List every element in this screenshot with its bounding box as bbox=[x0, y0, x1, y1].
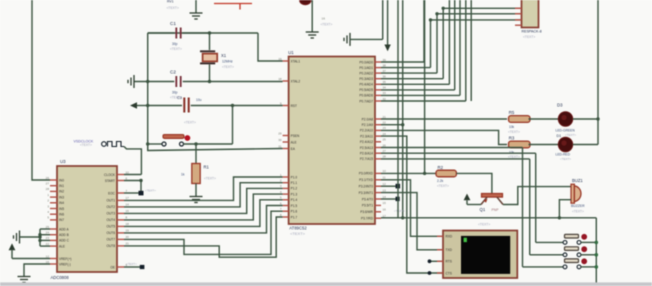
svg-text:P3.3/INT1: P3.3/INT1 bbox=[359, 191, 374, 195]
svg-text:IN5: IN5 bbox=[59, 207, 64, 211]
svg-text:<TEXT>: <TEXT> bbox=[204, 177, 216, 181]
svg-text:P2.5/A13: P2.5/A13 bbox=[360, 146, 373, 150]
svg-text:ALE: ALE bbox=[59, 244, 65, 248]
svg-text:21: 21 bbox=[383, 115, 387, 119]
U3 pin 18 OUT5 bbox=[117, 225, 124, 227]
svg-text:P3.0/RXD: P3.0/RXD bbox=[359, 172, 374, 176]
svg-text:P0.3/AD3: P0.3/AD3 bbox=[359, 77, 373, 81]
svg-text:OUT1: OUT1 bbox=[106, 199, 115, 203]
subtle tint overlays bbox=[0, 282, 652, 286]
svg-text:ADD C: ADD C bbox=[59, 239, 70, 243]
U1 pin 25 P2.4/A12 bbox=[375, 141, 381, 143]
svg-text:P3.5/T1: P3.5/T1 bbox=[362, 204, 373, 208]
wire DCLOCK to U3 CLOCK bbox=[124, 147, 141, 175]
svg-text:P3.7/RD: P3.7/RD bbox=[361, 217, 374, 221]
U1 pin 7 P1.6 bbox=[283, 210, 289, 212]
svg-text:28: 28 bbox=[46, 187, 50, 191]
U1 pin 8 P1.7 bbox=[283, 216, 289, 218]
svg-text:P3.6/WR: P3.6/WR bbox=[360, 210, 373, 214]
capacitor C3 (electrolytic) bbox=[148, 105, 182, 107]
wire P0.0 to resistor pack bbox=[381, 61, 424, 63]
svg-text:BUZ1: BUZ1 bbox=[572, 178, 583, 183]
wire P0.3 to resistor pack bbox=[381, 78, 443, 80]
wire crystal to XTAL1 net bbox=[209, 33, 211, 50]
svg-text:IN1: IN1 bbox=[59, 184, 64, 188]
U3 pin 10 CLOCK bbox=[117, 174, 124, 176]
svg-text:CTS: CTS bbox=[446, 271, 452, 275]
svg-text:PNP: PNP bbox=[492, 208, 500, 212]
svg-text:<TEXT>: <TEXT> bbox=[167, 6, 179, 10]
terminal CTS junction bbox=[428, 271, 432, 275]
svg-text:Q1: Q1 bbox=[480, 207, 486, 212]
svg-text:P3.2/INT0: P3.2/INT0 bbox=[359, 185, 374, 189]
terminal pin TXD bbox=[437, 249, 443, 251]
svg-text:R2: R2 bbox=[438, 165, 444, 170]
wire OUT2 to P1.1 bbox=[124, 183, 283, 207]
svg-text:VREF(+): VREF(+) bbox=[59, 257, 72, 261]
resistor R5 bbox=[509, 116, 531, 123]
svg-text:OUT8: OUT8 bbox=[106, 244, 115, 248]
svg-text:31: 31 bbox=[278, 144, 282, 148]
svg-text:R1: R1 bbox=[204, 165, 210, 170]
svg-text:VREF(-): VREF(-) bbox=[59, 262, 71, 266]
svg-text:C3: C3 bbox=[177, 96, 182, 100]
U3 pin 26 IN0 bbox=[50, 179, 57, 181]
wire R1 to ground bbox=[195, 184, 197, 197]
svg-text:IN4: IN4 bbox=[59, 201, 64, 205]
power arrow terminal up bbox=[464, 194, 471, 201]
wire riser RST to button row bbox=[232, 106, 234, 145]
svg-text:36: 36 bbox=[383, 75, 387, 79]
terminal screen bbox=[461, 236, 510, 274]
wire P3.3 to terminal TXD bbox=[381, 193, 443, 250]
U1 pin 13 P3.3/INT1 bbox=[375, 192, 381, 194]
svg-text:P1.4: P1.4 bbox=[291, 198, 298, 202]
svg-text:32: 32 bbox=[383, 97, 387, 101]
svg-text:RV1: RV1 bbox=[167, 0, 174, 4]
button 3 red actuator bbox=[581, 258, 587, 264]
transistor Q1 (PNP) bbox=[482, 194, 503, 198]
wire button 1 to ground bus bbox=[581, 241, 596, 243]
wire VREF- to ground bbox=[24, 264, 50, 276]
svg-text:R5: R5 bbox=[509, 110, 515, 115]
U3 pin 21 OUT8 bbox=[117, 245, 124, 247]
U3 pin 17 OUT1 bbox=[117, 199, 124, 201]
button red actuator bbox=[185, 135, 191, 141]
wire crystal bottom bbox=[209, 65, 211, 82]
U1 pin 3 P1.2 bbox=[283, 187, 289, 189]
U1 pin 2 P1.1 bbox=[283, 182, 289, 184]
svg-text:P1.5: P1.5 bbox=[291, 204, 298, 208]
U1 pin 26 P2.5/A13 bbox=[375, 147, 381, 149]
resistor R1 bbox=[195, 144, 197, 164]
resistor pack RESPACK-8 bbox=[522, 0, 539, 28]
svg-text:RXD: RXD bbox=[446, 235, 453, 239]
svg-text:P2.6/A14: P2.6/A14 bbox=[360, 152, 373, 156]
svg-text:<TEXT>: <TEXT> bbox=[572, 210, 584, 214]
U1 pin 30 ALE bbox=[283, 141, 289, 143]
svg-text:23: 23 bbox=[383, 126, 387, 130]
svg-text:<TEXT>: <TEXT> bbox=[184, 121, 196, 125]
wire XTAL2 net bbox=[134, 81, 174, 83]
svg-text:PSEN: PSEN bbox=[291, 134, 300, 138]
U1 pin 9 RST bbox=[283, 105, 289, 107]
U1 pin 17 P3.7/RD bbox=[375, 217, 381, 219]
EOC terminal bbox=[124, 192, 139, 194]
svg-text:P2.1/A9: P2.1/A9 bbox=[362, 123, 374, 127]
svg-text:P1.2: P1.2 bbox=[291, 187, 298, 191]
U1 pin 18 XTAL2 bbox=[283, 80, 289, 82]
svg-text:BUZZER: BUZZER bbox=[571, 204, 585, 208]
svg-text:OUT3: OUT3 bbox=[106, 212, 115, 216]
svg-text:23: 23 bbox=[46, 236, 50, 240]
svg-text:30p: 30p bbox=[172, 91, 178, 95]
wire OUT4 to P1.3 bbox=[124, 194, 283, 220]
U1 pin 19 XTAL1 bbox=[283, 60, 289, 62]
svg-text:XTAL2: XTAL2 bbox=[291, 79, 301, 83]
wire buzzer bottom to button bus bbox=[559, 200, 571, 218]
svg-text:P3.1/TXD: P3.1/TXD bbox=[359, 178, 374, 182]
long vertical net joining P3.7 row bbox=[397, 0, 399, 218]
junction button / R1 bbox=[194, 142, 197, 145]
wire P0.7 to resistor pack bbox=[381, 100, 466, 102]
svg-text:19: 19 bbox=[126, 229, 130, 233]
svg-text:P0.1/AD1: P0.1/AD1 bbox=[359, 66, 373, 70]
ground symbol top middle bbox=[195, 0, 197, 13]
wire to top edge bbox=[382, 0, 384, 39]
U1 pin 29 PSEN bbox=[283, 135, 289, 137]
svg-text:IN2: IN2 bbox=[59, 190, 64, 194]
power arrow for VREF+ bbox=[9, 243, 16, 250]
svg-text:33: 33 bbox=[383, 91, 387, 95]
svg-text:IN6: IN6 bbox=[59, 213, 64, 217]
svg-text:OUT2: OUT2 bbox=[106, 205, 115, 209]
svg-text:ADD B: ADD B bbox=[59, 233, 69, 237]
svg-text:30: 30 bbox=[278, 138, 282, 142]
svg-text:P0.2/AD2: P0.2/AD2 bbox=[359, 71, 373, 75]
U1 pin 4 P1.3 bbox=[283, 193, 289, 195]
U3 pin 23 ADD C bbox=[50, 239, 57, 241]
U1 pin 14 P3.4/T0 bbox=[375, 198, 381, 200]
svg-text:16: 16 bbox=[383, 208, 387, 212]
U3 pin 20 OUT7 bbox=[117, 238, 124, 240]
svg-text:27: 27 bbox=[46, 182, 50, 186]
buzzer BUZ1 bbox=[571, 184, 574, 203]
svg-text:<TEXT>: <TEXT> bbox=[565, 133, 576, 137]
U1 pin 38 P0.1/AD1 bbox=[375, 67, 381, 69]
wire XTAL1 top net bbox=[148, 32, 258, 34]
svg-text:RESPACK-8: RESPACK-8 bbox=[522, 30, 542, 34]
wire P2.2 to R3 bbox=[381, 130, 507, 144]
svg-text:24: 24 bbox=[46, 231, 50, 235]
wire fragment to ground bbox=[311, 0, 313, 32]
U1 pin 15 P3.5/T1 bbox=[375, 204, 381, 206]
svg-text:2.2k: 2.2k bbox=[437, 179, 444, 183]
svg-text:OE: OE bbox=[110, 265, 115, 269]
svg-text:P3.4/T0: P3.4/T0 bbox=[362, 197, 373, 201]
wire P3.7 row to button bus bbox=[381, 217, 596, 219]
U1 pin 34 P0.5/AD5 bbox=[375, 89, 381, 91]
svg-text:P1.0: P1.0 bbox=[291, 175, 298, 179]
vertical ADD bus bbox=[39, 229, 41, 246]
svg-text:<TEXT>: <TEXT> bbox=[80, 143, 92, 147]
junction crystal top bbox=[208, 31, 211, 34]
respack pin 1 bbox=[515, 7, 522, 9]
U3 pin 15 OUT3 bbox=[117, 212, 124, 214]
wire button 3 to ground bus bbox=[581, 266, 596, 268]
svg-text:25: 25 bbox=[383, 138, 387, 142]
push button 2 bbox=[563, 253, 567, 257]
svg-text:ALE: ALE bbox=[291, 140, 297, 144]
svg-text:15: 15 bbox=[126, 209, 130, 213]
wire R5 to D3 bbox=[529, 118, 559, 120]
button 2 red actuator bbox=[581, 246, 587, 252]
U3 pin 14 OUT2 bbox=[117, 206, 124, 208]
reset button bbox=[148, 143, 162, 145]
svg-text:12: 12 bbox=[383, 182, 387, 186]
svg-text:38: 38 bbox=[383, 63, 387, 67]
svg-text:P0.0/AD0: P0.0/AD0 bbox=[359, 60, 373, 64]
U3 pin 4 IN6 bbox=[50, 213, 57, 215]
wire R2 to Q1 base bbox=[456, 173, 492, 193]
U3 pin 25 ADD A bbox=[50, 228, 57, 230]
wire P3.0 to R2 bbox=[381, 172, 436, 174]
svg-text:D3: D3 bbox=[557, 103, 563, 108]
svg-text:21: 21 bbox=[126, 242, 130, 246]
svg-text:P1.7: P1.7 bbox=[291, 215, 298, 219]
U1 pin 36 P0.3/AD3 bbox=[375, 78, 381, 80]
wire P0.4 to resistor pack bbox=[381, 83, 449, 85]
svg-text:16: 16 bbox=[46, 260, 50, 264]
terminal pin CTS bbox=[437, 272, 443, 274]
capacitor C1 bbox=[148, 32, 175, 34]
U1 pin 37 P0.2/AD2 bbox=[375, 72, 381, 74]
svg-text:25: 25 bbox=[46, 225, 50, 229]
U1 pin 6 P1.5 bbox=[283, 205, 289, 207]
U1 pin 21 P2.0/A8 bbox=[375, 118, 381, 120]
svg-text:RST: RST bbox=[291, 104, 297, 108]
U3 pin 19 OUT6 bbox=[117, 232, 124, 234]
svg-text:14: 14 bbox=[126, 203, 130, 207]
respack pin 3 bbox=[515, 19, 522, 21]
svg-text:<TEXT>: <TEXT> bbox=[508, 130, 520, 134]
svg-text:12: 12 bbox=[46, 254, 50, 258]
svg-text:22: 22 bbox=[383, 121, 387, 125]
svg-text:29: 29 bbox=[278, 131, 282, 135]
wire P2.1 row bbox=[381, 124, 403, 126]
terminal pin RTS bbox=[437, 260, 443, 262]
U1 pin 24 P2.3/A11 bbox=[375, 135, 381, 137]
svg-text:14: 14 bbox=[383, 195, 387, 199]
capacitor C2 bbox=[176, 76, 180, 87]
svg-text:<TEXT>: <TEXT> bbox=[321, 23, 333, 27]
svg-text:<TEXT>: <TEXT> bbox=[560, 157, 571, 161]
terminal RTS stub bbox=[430, 260, 444, 262]
wire R3 to D1 bbox=[529, 144, 559, 146]
svg-text:P1.3: P1.3 bbox=[291, 192, 298, 196]
terminal pin RXD bbox=[437, 235, 443, 237]
U3 pin 12 VREF(+) bbox=[50, 258, 57, 260]
U3 pin 16 VREF(-) bbox=[50, 263, 57, 265]
junction RST / button riser bbox=[231, 104, 234, 107]
push button 1 bbox=[563, 241, 567, 245]
OE terminal bbox=[124, 266, 140, 268]
junction C-net / vertical bbox=[146, 80, 149, 83]
wire P2.3 to terminal CTS bbox=[381, 136, 443, 273]
wire D1 to bus bbox=[573, 144, 598, 146]
terminal P3.4 net bbox=[381, 198, 396, 200]
wire OUT3 to P1.2 bbox=[124, 188, 283, 213]
U3 pin 2 IN4 bbox=[50, 202, 57, 204]
U1 pin 28 P2.7/A15 bbox=[375, 158, 381, 160]
svg-text:CLOCK: CLOCK bbox=[104, 173, 116, 177]
svg-text:U1: U1 bbox=[288, 50, 294, 55]
svg-text:XTAL1: XTAL1 bbox=[291, 59, 301, 63]
svg-text:<TEXT>: <TEXT> bbox=[290, 231, 306, 236]
svg-text:10: 10 bbox=[383, 169, 387, 173]
wire EA net bbox=[147, 144, 149, 151]
wire Q1 emitter to power arrow bbox=[467, 204, 481, 206]
ground for C2 (rotated) bbox=[128, 75, 134, 88]
svg-text:R3: R3 bbox=[509, 136, 515, 141]
virtual terminal body bbox=[443, 231, 517, 279]
U1 pin 22 P2.1/A9 bbox=[375, 124, 381, 126]
svg-text:LED-RED: LED-RED bbox=[556, 153, 571, 157]
terminal P3.2 net bbox=[381, 185, 396, 187]
svg-text:ADC0808: ADC0808 bbox=[51, 275, 70, 280]
ground at button bus bottom bbox=[590, 283, 603, 286]
U3 pin 27 IN1 bbox=[50, 185, 57, 187]
svg-text:C2: C2 bbox=[170, 70, 176, 75]
svg-text:U3: U3 bbox=[60, 159, 66, 164]
U1 pin 16 P3.6/WR bbox=[375, 211, 381, 213]
wire OUT5 to P1.4 bbox=[124, 200, 283, 227]
component fragment at top (dark red) bbox=[300, 0, 311, 5]
svg-text:18: 18 bbox=[126, 222, 130, 226]
svg-text:1k: 1k bbox=[181, 173, 185, 177]
svg-text:39: 39 bbox=[383, 58, 387, 62]
svg-text:RTS: RTS bbox=[446, 260, 452, 264]
wire P2.0 to R5 bbox=[381, 118, 507, 120]
long vertical net joining R2 input bbox=[424, 0, 426, 173]
svg-text:IN0: IN0 bbox=[59, 178, 64, 182]
U1 pin 23 P2.2/A10 bbox=[375, 129, 381, 131]
wire P0.5 to resistor pack bbox=[381, 89, 455, 91]
svg-text:26: 26 bbox=[383, 143, 387, 147]
svg-text:OUT7: OUT7 bbox=[106, 238, 115, 242]
svg-text:<TEXT>: <TEXT> bbox=[222, 65, 234, 69]
wire OUT6 to P1.5 bbox=[124, 206, 283, 233]
svg-text:20: 20 bbox=[126, 235, 130, 239]
wire P2.6 to button 1 bbox=[381, 152, 536, 154]
U3 pin 6 START bbox=[117, 180, 124, 182]
junction at LED bus bbox=[596, 117, 599, 120]
rotated ground near U1 top bbox=[344, 33, 350, 46]
svg-text:C1: C1 bbox=[170, 21, 176, 26]
wire P2.5 to button 3 bbox=[381, 147, 523, 149]
U3 pin 5 IN7 bbox=[50, 219, 57, 221]
svg-text:OUT6: OUT6 bbox=[106, 231, 115, 235]
U1 pin 39 P0.0/AD0 bbox=[375, 61, 381, 63]
svg-text:P2.4/A12: P2.4/A12 bbox=[360, 140, 373, 144]
svg-text:START: START bbox=[105, 179, 115, 183]
svg-text:X1: X1 bbox=[221, 53, 227, 58]
junction RST net bbox=[146, 104, 149, 107]
U3 pin 3 IN5 bbox=[50, 208, 57, 210]
power rail fragment (red) bbox=[214, 3, 252, 5]
vertical wire to top edge bbox=[597, 0, 599, 119]
U1 pin 5 P1.4 bbox=[283, 199, 289, 201]
long vertical net through P2.1 down to P3.7 row bbox=[402, 0, 404, 218]
wire P0.1 to resistor pack bbox=[381, 67, 431, 69]
ground below fragment bbox=[306, 32, 319, 38]
svg-text:34: 34 bbox=[383, 86, 387, 90]
svg-text:P2.2/A10: P2.2/A10 bbox=[360, 129, 373, 133]
adc U3 ADC0808 body bbox=[57, 166, 117, 272]
svg-text:24: 24 bbox=[383, 132, 387, 136]
svg-text:19: 19 bbox=[278, 57, 282, 61]
micro U1 AT89C52 body bbox=[289, 57, 375, 225]
svg-text:IN3: IN3 bbox=[59, 195, 64, 199]
U1 pin 1 P1.0 bbox=[283, 176, 289, 178]
LED D3 (green) bbox=[558, 112, 572, 126]
svg-text:IN7: IN7 bbox=[59, 218, 64, 222]
U1 pin 27 P2.6/A14 bbox=[375, 152, 381, 154]
svg-text:<TEXT>: <TEXT> bbox=[478, 223, 490, 227]
arrow terminal pointing down bbox=[387, 0, 389, 45]
svg-text:18: 18 bbox=[278, 77, 282, 81]
svg-text:13: 13 bbox=[383, 188, 387, 192]
svg-text:35: 35 bbox=[383, 80, 387, 84]
button 1 red actuator bbox=[581, 234, 587, 240]
svg-text:P2.7/A15: P2.7/A15 bbox=[360, 157, 373, 161]
svg-text:P0.7/AD7: P0.7/AD7 bbox=[359, 99, 373, 103]
svg-text:11: 11 bbox=[383, 176, 386, 180]
U3 pin 1 IN3 bbox=[50, 196, 57, 198]
wire top-left input to IN0 bbox=[32, 0, 50, 180]
wire Q1 collector to buzzer bbox=[503, 187, 571, 205]
terminal RTS junction bbox=[428, 259, 432, 263]
long vertical net wire at x=471 (cut at top) bbox=[470, 0, 472, 101]
svg-text:<TEXT>: <TEXT> bbox=[145, 189, 156, 193]
svg-text:ADD A: ADD A bbox=[59, 227, 69, 231]
svg-text:TXD: TXD bbox=[446, 248, 453, 252]
svg-text:OUT4: OUT4 bbox=[106, 218, 115, 222]
svg-text:16: 16 bbox=[322, 17, 326, 21]
svg-text:10: 10 bbox=[126, 170, 130, 174]
svg-text:22: 22 bbox=[46, 242, 50, 246]
wire OUT7 to P1.6 (dipped route) bbox=[124, 211, 283, 254]
resistor R2 bbox=[436, 170, 456, 177]
svg-text:P0.5/AD5: P0.5/AD5 bbox=[359, 88, 373, 92]
svg-text:P1.6: P1.6 bbox=[291, 210, 298, 214]
wire P3.1 to terminal RXD bbox=[381, 180, 443, 237]
svg-text:10u: 10u bbox=[196, 98, 202, 102]
wire button 2 to ground bus bbox=[581, 254, 596, 256]
vertical bus wire left of reset circuit bbox=[147, 33, 149, 151]
U3 pin 7 EOC bbox=[117, 192, 124, 194]
resistor R3 bbox=[509, 141, 531, 148]
svg-text:P2.0/A8: P2.0/A8 bbox=[362, 117, 374, 121]
ADD address bus ground bbox=[14, 231, 20, 244]
push button 3 bbox=[563, 265, 567, 269]
svg-text:26: 26 bbox=[46, 176, 50, 180]
svg-text:LED-GREEN: LED-GREEN bbox=[556, 129, 576, 133]
U3 pin 9 OE bbox=[117, 266, 124, 268]
U3 pin 28 IN2 bbox=[50, 190, 57, 192]
wire START net bbox=[124, 180, 141, 182]
wire D3 to VCC riser bbox=[573, 118, 598, 120]
